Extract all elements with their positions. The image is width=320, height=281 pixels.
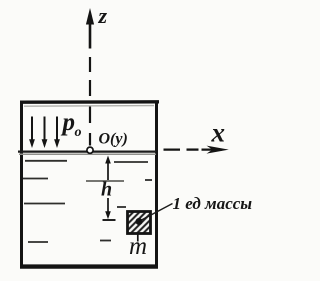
z-axis dash 2 — [89, 80, 91, 96]
water dash row4 left — [28, 241, 48, 243]
z-axis dash 4 — [89, 133, 91, 146]
depth dimension h lower segment — [103, 198, 116, 220]
depth dimension h upper segment — [105, 156, 111, 181]
water dash row3 right — [117, 206, 126, 208]
x-axis dash 2 — [187, 148, 199, 150]
z axis — [86, 8, 94, 146]
origin O — [87, 147, 93, 153]
svg-text:O(y): O(y) — [99, 130, 128, 147]
tick below mass — [137, 235, 139, 242]
svg-text:1 ед массы: 1 ед массы — [173, 194, 253, 213]
svg-text:m: m — [129, 233, 147, 260]
tank bottom edge — [20, 264, 158, 268]
liquid surface main line — [18, 150, 156, 152]
water dash row1 left — [25, 160, 67, 162]
svg-text:p: p — [61, 109, 76, 136]
dimension end tick — [103, 219, 116, 221]
leader line to label — [142, 204, 173, 221]
water dash row1 right — [114, 161, 148, 163]
x axis — [164, 146, 229, 154]
pressure arrow 3 — [54, 117, 60, 149]
mass square m — [128, 212, 151, 234]
pressure arrow 2 — [42, 117, 48, 149]
water dash row3 left — [24, 203, 65, 205]
tank walls — [20, 101, 159, 268]
x-axis arrow shaft — [202, 148, 223, 150]
water dash row4 right — [100, 240, 111, 242]
tank left wall — [20, 101, 23, 268]
label p0 — [61, 109, 82, 140]
pressure arrow 1 — [29, 117, 35, 149]
svg-text:z: z — [98, 3, 108, 28]
mass center dot — [136, 218, 143, 225]
z-axis dash 1 — [89, 57, 91, 72]
tank right wall — [155, 101, 158, 268]
water dash row2 left — [23, 178, 48, 180]
tank top edge — [20, 100, 159, 104]
svg-text:o: o — [75, 125, 82, 140]
liquid surface lower gray line — [19, 153, 156, 155]
x-axis arrowhead — [207, 146, 229, 154]
z-axis dash 3 — [89, 107, 91, 124]
svg-text:h: h — [101, 179, 112, 201]
z-axis solid shaft — [89, 20, 92, 49]
z-axis arrowhead — [86, 8, 94, 25]
water dash row2 right — [145, 179, 152, 181]
tank top inner gray line — [24, 105, 154, 108]
water dash row2 mid — [86, 180, 124, 182]
svg-text:x: x — [211, 118, 226, 148]
x-axis dash 1 — [164, 148, 181, 150]
